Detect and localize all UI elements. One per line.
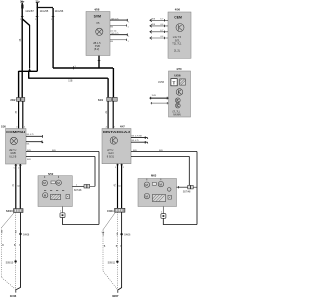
connector C4/11 bottom right <box>107 208 125 213</box>
wire long inner left from compressor <box>26 156 95 158</box>
svg-text:2L 2L: 2L 2L <box>174 49 181 52</box>
wire relay stub 1 <box>131 138 148 139</box>
wire CEM stub 1 with arrow <box>150 19 168 21</box>
svg-text:B/L 0.75: B/L 0.75 <box>112 19 119 21</box>
svg-text:4/58: 4/58 <box>94 7 100 11</box>
wire loop left down-right-up <box>62 218 99 225</box>
connector tick row y16.5 L1a <box>21 15 24 18</box>
dashed far bend to ground right <box>103 271 117 289</box>
svg-text:B/L: B/L <box>27 144 30 146</box>
svg-text:1/36: 1/36 <box>1 125 6 128</box>
pin tick and 1 on Htop <box>72 66 75 69</box>
wire CEM stub 2 with arrow <box>150 25 168 27</box>
wire outer left vertical drop <box>98 152 100 225</box>
wire SVM stub 1 <box>110 19 128 21</box>
svg-text:L/B: L/B <box>103 232 105 236</box>
svg-text:11G/95: 11G/95 <box>40 9 49 13</box>
svg-text:S4/10: S4/10 <box>6 210 13 213</box>
wire U56 stub 2 thin <box>151 102 169 104</box>
wires relay bottom pins down <box>118 164 122 209</box>
wire loop right down-right-up <box>163 218 197 224</box>
wire inner left vertical drop to connector <box>94 157 96 187</box>
dashed wire far right group <box>102 230 104 271</box>
svg-text:U/56: U/56 <box>174 73 181 77</box>
wire L1b vertical <box>29 25 31 68</box>
svg-text:3I/87: 3I/87 <box>112 294 119 298</box>
svg-text:11G/87: 11G/87 <box>25 9 34 13</box>
shield square symbol left <box>60 213 65 218</box>
wire CEM stub 3 with arrow <box>150 31 168 33</box>
svg-text:S4/06: S4/06 <box>23 233 30 236</box>
dashed wire mid right <box>116 212 118 289</box>
connector C right mid (two cells) <box>98 97 117 101</box>
pin tick on SVM drop <box>98 59 101 62</box>
svg-text:UL2 B: UL2 B <box>9 156 16 159</box>
junction dot S09/10 <box>14 260 16 262</box>
svg-text:SVM: SVM <box>94 15 102 19</box>
svg-text:R/B: R/B <box>27 150 31 152</box>
svg-text:S09/11: S09/11 <box>108 262 116 265</box>
svg-text:T: T <box>173 81 176 86</box>
svg-text:S07/48: S07/48 <box>183 190 191 193</box>
svg-text:C4/11: C4/11 <box>107 210 114 213</box>
svg-text:4/47: 4/47 <box>120 125 125 128</box>
svg-text:5/52: 5/52 <box>48 172 54 176</box>
wire long outer right from relay <box>131 151 197 153</box>
svg-text:MSTADGAJ: MSTADGAJ <box>103 130 131 134</box>
wire motor1 bottom pin <box>61 207 63 213</box>
svg-text:T2L 7L1: T2L 7L1 <box>172 42 182 45</box>
wires right mid connector to relay box <box>108 101 113 128</box>
svg-text:S07/48: S07/48 <box>74 189 82 192</box>
svg-text:NN MN: NN MN <box>173 115 181 117</box>
wire long outer left from compressor <box>26 151 99 153</box>
wires compressor bottom pins down <box>16 164 20 209</box>
wire relay stub 2 <box>131 142 148 143</box>
svg-text:COMPSH: COMPSH <box>6 130 25 134</box>
junction arrow where L1b meets H1 <box>28 68 31 71</box>
component 4/70 control unit box <box>169 67 191 117</box>
svg-text:15B: 15B <box>68 80 73 82</box>
connector C left mid (two cells) <box>10 98 24 102</box>
svg-text:16/5B: 16/5B <box>158 82 164 84</box>
pin ticks compressor bottom <box>15 164 18 167</box>
wire SVM stub 2 <box>110 24 127 26</box>
wire U56 stub 1 thick <box>150 97 169 99</box>
wire CEM stub 4 with arrow <box>150 37 168 39</box>
svg-text:15/B: 15/B <box>152 95 157 97</box>
ground stub left <box>15 289 17 292</box>
wire connector to inner drop junction <box>90 185 95 187</box>
svg-text:11G/96: 11G/96 <box>55 9 64 13</box>
connector S07/48 right (two cells) <box>188 185 191 189</box>
wire compressor stub 2 <box>26 142 43 143</box>
wires left mid connector to compressor box <box>19 101 23 128</box>
solid wire bottom right <box>118 212 121 290</box>
wire diagonal branch L1a to L1b <box>22 19 29 26</box>
svg-text:1I/36: 1I/36 <box>10 294 17 298</box>
dashed wire mid left <box>15 213 17 290</box>
solid wire bottom left <box>16 213 20 290</box>
wire L3 vertical branch <box>52 8 54 68</box>
svg-text:(7L 7L): (7L 7L) <box>173 111 180 113</box>
wire motor1 right stub <box>72 185 84 187</box>
component M59 SVM module box <box>86 7 110 55</box>
connector S07/48 left (two cells) <box>84 185 87 189</box>
svg-text:B/B: B/B <box>133 150 137 152</box>
svg-text:B/B: B/B <box>52 150 56 152</box>
wire connector right to outer drop <box>193 186 197 188</box>
svg-text:CEM: CEM <box>174 15 182 19</box>
svg-text:(8.2): (8.2) <box>94 48 99 51</box>
wire outer right vertical drop <box>196 152 198 225</box>
wire L2 vertical feed from 30+ <box>36 3 38 72</box>
wire SVM bottom pin drop to Htop <box>98 56 100 69</box>
component motor assembly M63 <box>138 173 177 206</box>
component compressor box <box>1 125 26 164</box>
junction dot S4/06 left <box>19 233 21 235</box>
wire motor2 bottom pin <box>162 207 164 214</box>
connector tick row y16.5 L3 <box>52 15 55 18</box>
wire top bar joining L2 and L3 <box>37 7 54 9</box>
wire Htop horizontal from L3 <box>53 67 113 69</box>
ground stub right <box>117 289 119 292</box>
svg-text:M63: M63 <box>151 173 157 177</box>
svg-text:24/2: 24/2 <box>10 98 16 102</box>
svg-text:4/56: 4/56 <box>175 8 181 12</box>
dashed far left bend to ground <box>2 278 16 290</box>
connector S4/10 bottom left <box>6 209 23 214</box>
wire SVM stub 4 <box>110 39 127 41</box>
wire diagonal bottom left to far dashed <box>2 213 14 228</box>
wire motor2 right stub <box>177 186 188 188</box>
wire Htop drop at x113 <box>112 68 114 98</box>
wire H1 left drop to connector <box>18 71 20 98</box>
component A76 CEM module box <box>168 8 191 59</box>
svg-text:B/L 0.75 SB: B/L 0.75 SB <box>132 136 143 138</box>
wire inner right vertical drop to connector <box>188 156 190 185</box>
svg-text:B/B: B/B <box>159 150 163 152</box>
wire compressor stub 1 <box>26 135 42 137</box>
wire SVM stub 3 <box>110 34 128 36</box>
junction dot S4/06 right <box>120 233 122 235</box>
svg-text:B/L 0.75: B/L 0.75 <box>27 134 34 136</box>
shield square symbol right <box>161 214 166 219</box>
svg-text:B/L 0.75: B/L 0.75 <box>132 140 139 142</box>
wire L1b continuation to H2 <box>28 71 30 78</box>
svg-text:B/L 0.75: B/L 0.75 <box>112 33 119 35</box>
wire H2 horizontal to relay drop <box>28 77 108 79</box>
svg-text:B/R: B/R <box>27 159 31 161</box>
wire long inner right from relay <box>131 155 189 157</box>
component motor assembly 5/52 <box>38 172 72 206</box>
connector tick row y16.5 L2 <box>36 15 39 18</box>
svg-text:S4/06: S4/06 <box>124 234 131 237</box>
wire H1 horizontal <box>19 70 38 72</box>
pin ticks relay bottom <box>116 164 119 167</box>
junction dot S09/11 <box>116 261 118 263</box>
svg-text:64/1: 64/1 <box>98 98 104 102</box>
svg-text:4/70: 4/70 <box>176 67 182 71</box>
dashed wire far left <box>1 227 3 277</box>
svg-text:S09/10: S09/10 <box>6 261 14 264</box>
wire diagonal bottom right to far dashed <box>103 212 115 229</box>
wire L1a vertical feed from 30+ <box>21 3 23 98</box>
component relay box <box>102 125 131 163</box>
svg-text:9 S/31: 9 S/31 <box>107 156 115 159</box>
connector tick on L1a <box>21 1 24 4</box>
wire H2 drop at x108 <box>107 78 109 97</box>
svg-text:L/B: L/B <box>2 229 4 233</box>
